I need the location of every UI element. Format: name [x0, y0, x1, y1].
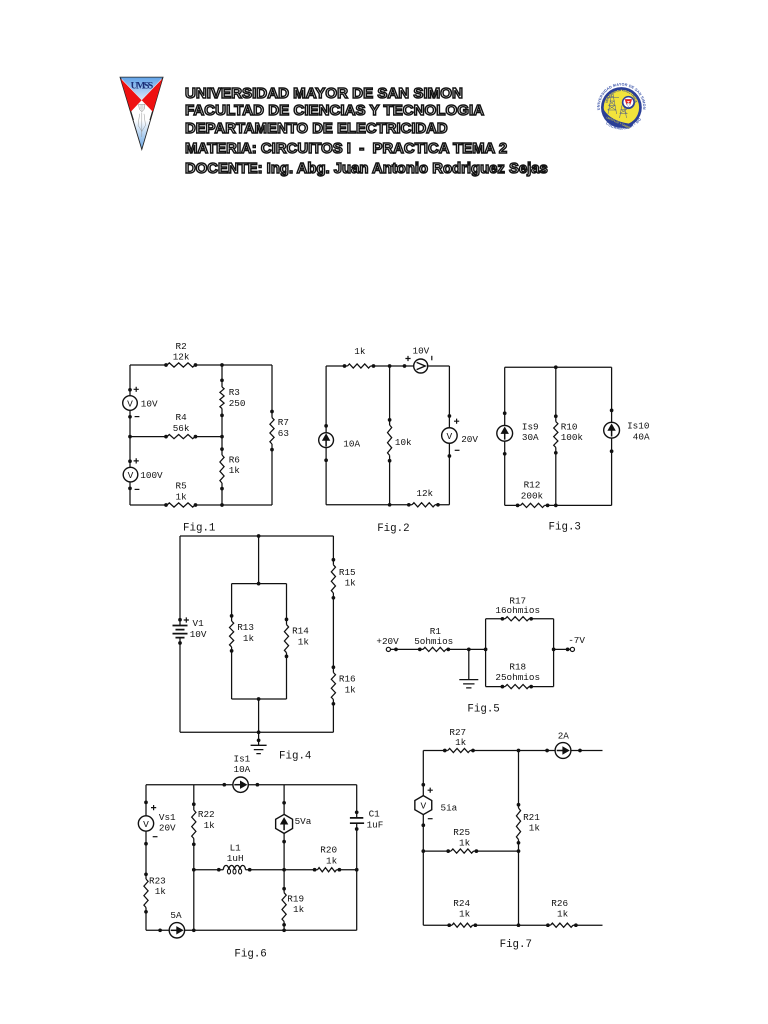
resistor R19 1k: [282, 887, 286, 927]
svg-text:Fig.1: Fig.1: [183, 523, 215, 535]
svg-text:Fig.4: Fig.4: [279, 751, 311, 763]
current source 10A: [319, 424, 334, 462]
terminal -7V: [570, 647, 574, 651]
wire Fig1 right: [271, 365, 273, 505]
ground Fig4: [251, 732, 267, 753]
wire Fig6 middle horizontal: [194, 869, 357, 871]
wire Fig7 left: [422, 751, 424, 926]
wire Fig7 middle vertical: [518, 751, 520, 926]
svg-text:R24: R24: [453, 898, 470, 909]
resistor 12k Fig2: [407, 503, 440, 507]
svg-text:1k: 1k: [345, 684, 357, 695]
wire Fig6 branch2 vertical: [193, 785, 195, 931]
svg-text:Is9: Is9: [522, 421, 539, 432]
svg-text:1k: 1k: [459, 909, 471, 920]
voltage source V 100V: [123, 459, 138, 490]
resistor R5 1k: [164, 503, 197, 507]
wire Fig4 left top lead: [179, 536, 181, 626]
svg-text:200k: 200k: [521, 491, 544, 502]
wire Fig2 top-left segment: [326, 365, 414, 367]
minus sign V10V: [135, 416, 140, 418]
wire Fig4 center stub top: [258, 536, 260, 584]
svg-text:10A: 10A: [343, 439, 360, 450]
junction dots Fig3: [554, 365, 558, 507]
Electrical engineering seal logo: [0, 0, 646, 131]
inner loop left wire: [231, 584, 233, 699]
wire Fig1 middle vertical: [221, 365, 223, 505]
resistor R13 1k: [229, 614, 233, 653]
current source Is10 40A: [604, 409, 620, 454]
Fig.4 circuit: [0, 0, 1, 1]
voltage source Vs1 20V: [138, 801, 153, 846]
junction dots Fig7: [421, 749, 520, 927]
junction dots Fig6: [192, 868, 359, 932]
junction dots Fig1: [128, 363, 224, 507]
resistor R12 200k: [516, 503, 550, 507]
svg-text:250: 250: [229, 398, 246, 409]
parallel box bottom branch: [486, 686, 554, 688]
svg-text:1k: 1k: [293, 904, 305, 915]
plus sign V100V: [134, 458, 139, 463]
svg-text:V: V: [420, 801, 426, 812]
svg-text:1uH: 1uH: [227, 853, 244, 864]
parallel box left bar: [485, 619, 487, 687]
svg-text:100k: 100k: [561, 432, 584, 443]
plus sign 20V: [454, 419, 459, 424]
svg-text:1k: 1k: [455, 737, 467, 748]
svg-text:R15: R15: [339, 567, 356, 578]
svg-text:1k: 1k: [298, 637, 310, 648]
voltage source 10V horizontal: [403, 359, 428, 373]
wire Fig6 left: [145, 785, 147, 931]
svg-text:63: 63: [278, 428, 289, 439]
Fig.6 circuit: [0, 0, 1, 1]
svg-text:R2: R2: [176, 341, 187, 352]
svg-text:5A: 5A: [170, 910, 182, 921]
dependent source 5Va: [276, 801, 293, 844]
resistor R24 1k: [447, 923, 477, 927]
resistor R14 1k: [284, 618, 288, 659]
svg-text:C1: C1: [369, 808, 381, 819]
wire Fig4 right: [332, 536, 334, 732]
svg-text:10k: 10k: [395, 437, 412, 448]
svg-text:12k: 12k: [173, 352, 190, 363]
svg-text:R26: R26: [551, 898, 568, 909]
svg-text:1k: 1k: [229, 465, 241, 476]
resistor R18 25ohmios: [501, 684, 534, 688]
wire Fig3 middle: [555, 367, 557, 505]
inner loop rectangle top: [232, 583, 287, 585]
svg-text:1uF: 1uF: [367, 819, 384, 830]
wire Fig3 top: [505, 366, 612, 368]
svg-text:1k: 1k: [176, 492, 188, 503]
UMSS pennant logo: [120, 78, 162, 149]
inner loop right wire: [286, 584, 288, 699]
terminal +20V: [386, 647, 390, 651]
svg-text:R6: R6: [229, 454, 240, 465]
resistor R6 1k: [220, 447, 224, 490]
svg-text:V: V: [128, 470, 134, 481]
resistor R16 1k: [331, 665, 335, 705]
svg-text:R23: R23: [149, 875, 166, 886]
plus sign V10V: [134, 387, 139, 392]
svg-text:V: V: [127, 398, 133, 409]
svg-text:1k: 1k: [459, 837, 471, 848]
svg-text:R16: R16: [339, 674, 356, 685]
ground stub Fig5: [459, 648, 478, 688]
wire Fig1 middle horizontal: [130, 436, 222, 438]
battery V1 10V: [173, 618, 188, 645]
parallel box top branch: [486, 618, 554, 620]
svg-text:R19: R19: [287, 893, 304, 904]
minus sign Vs1: [153, 836, 158, 838]
svg-text:1k: 1k: [529, 823, 541, 834]
wire Fig5 main left: [391, 648, 486, 652]
wire Fig7 middle horizontal: [423, 850, 518, 852]
wire Fig1 top: [130, 364, 272, 366]
svg-text:R18: R18: [509, 661, 526, 672]
wire Fig2 middle vertical: [389, 366, 391, 505]
svg-text:V: V: [143, 819, 149, 830]
svg-text:Fig.2: Fig.2: [377, 523, 409, 535]
svg-text:Vs1: Vs1: [159, 812, 176, 823]
voltage source V 20V: [442, 414, 458, 458]
svg-text:1k: 1k: [204, 820, 216, 831]
svg-text:1k: 1k: [354, 346, 366, 357]
svg-text:5Va: 5Va: [295, 816, 312, 827]
resistor R4 56k: [164, 434, 197, 438]
svg-text:12k: 12k: [416, 488, 433, 499]
wire Fig6 branch3 vertical: [283, 785, 285, 931]
resistor R3 250: [220, 378, 224, 417]
wire Fig2 right: [448, 366, 450, 505]
svg-text:1k: 1k: [243, 633, 255, 644]
svg-text:L1: L1: [230, 843, 242, 854]
svg-text:-7V: -7V: [568, 635, 585, 646]
svg-text:R25: R25: [453, 827, 470, 838]
resistor R21 1k: [516, 803, 520, 845]
svg-text:+20V: +20V: [376, 636, 399, 647]
current source 5A: [158, 923, 195, 938]
wire Fig1 left: [129, 365, 131, 505]
svg-text:10V: 10V: [190, 629, 207, 640]
svg-text:R5: R5: [176, 481, 187, 492]
current source Is9 30A: [497, 411, 513, 455]
svg-text:V1: V1: [193, 618, 205, 629]
svg-text:5ohmios: 5ohmios: [414, 636, 453, 647]
voltage source V 10V: [123, 388, 138, 419]
svg-text:5ia: 5ia: [441, 802, 458, 813]
resistor R27 1k: [443, 748, 475, 752]
svg-text:40A: 40A: [633, 432, 650, 443]
current source 2A: [545, 743, 582, 759]
junction dots Fig5 bars: [484, 648, 556, 652]
wire Fig3 right: [611, 367, 613, 505]
svg-text:R1: R1: [430, 626, 442, 637]
plus sign V1: [184, 617, 189, 622]
svg-text:R7: R7: [278, 417, 289, 428]
resistor 1k Fig2: [343, 364, 376, 368]
current source Is1 10A: [222, 777, 259, 792]
wire Fig6 bottom: [146, 929, 357, 931]
wire Fig2 left: [325, 366, 327, 505]
wire Fig3 left: [504, 367, 506, 505]
svg-text:1k: 1k: [557, 909, 569, 920]
svg-text:1k: 1k: [155, 886, 167, 897]
svg-text:R14: R14: [292, 626, 309, 637]
resistor R25 1k: [446, 849, 478, 853]
svg-text:2A: 2A: [558, 731, 570, 742]
svg-text:Is1: Is1: [234, 754, 251, 765]
wire Fig4 left bottom lead: [179, 638, 181, 733]
svg-text:Fig.5: Fig.5: [467, 704, 499, 716]
resistor 10k: [387, 418, 391, 463]
resistor R2 12k: [164, 363, 197, 367]
dependent source 5ia: [415, 783, 432, 827]
minus tick 10V Fig2: [431, 356, 433, 361]
minus sign 5ia: [428, 818, 433, 820]
svg-text:UMSS: UMSS: [131, 81, 154, 92]
junction dots Fig4: [257, 534, 261, 742]
svg-text:10V: 10V: [413, 346, 430, 357]
Fig.3 circuit: [0, 0, 1, 1]
inductor L1 1uH: [217, 865, 252, 874]
svg-text:1k: 1k: [345, 578, 357, 589]
svg-text:30A: 30A: [522, 432, 539, 443]
inner loop bottom wire: [232, 698, 287, 700]
svg-text:20V: 20V: [461, 434, 478, 445]
wire Fig6 right lower: [356, 823, 358, 930]
wire Fig5 main right: [554, 648, 571, 652]
resistor R7 63: [270, 410, 274, 452]
svg-text:R4: R4: [176, 412, 188, 423]
Fig.1 circuit: [0, 0, 1, 1]
svg-text:R12: R12: [524, 480, 541, 491]
svg-text:R21: R21: [523, 812, 540, 823]
svg-text:56k: 56k: [173, 423, 190, 434]
minus sign 20V: [455, 449, 460, 451]
wire Fig2 top-right segment: [428, 365, 450, 367]
svg-text:10V: 10V: [141, 398, 158, 409]
wire Fig6 top: [146, 784, 357, 786]
Fig.2 circuit: [0, 0, 1, 1]
svg-text:R10: R10: [561, 421, 578, 432]
wire Fig1 bottom: [130, 504, 272, 506]
Fig.5 circuit: [0, 0, 1, 1]
plus sign 5ia: [428, 788, 433, 793]
svg-text:R13: R13: [237, 622, 254, 633]
junction dots Fig2: [388, 364, 392, 507]
svg-text:16ohmios: 16ohmios: [495, 605, 540, 616]
Fig.7 circuit: [0, 0, 1, 1]
resistor R23 1k: [144, 872, 148, 913]
svg-text:1k: 1k: [326, 855, 338, 866]
wire Fig7 top: [423, 750, 602, 752]
svg-text:R20: R20: [320, 844, 337, 855]
wire Fig4 top: [180, 535, 333, 537]
parallel box right bar: [553, 619, 555, 687]
wire Fig7 bottom: [423, 924, 602, 926]
wire Fig4 center stub bottom: [258, 699, 260, 732]
wire Fig3 bottom: [505, 504, 612, 506]
minus sign V100V: [135, 488, 140, 490]
svg-text:R22: R22: [198, 809, 215, 820]
resistor R1 5ohmios: [418, 647, 450, 651]
resistor R10 100k: [554, 414, 558, 454]
svg-text:20V: 20V: [159, 823, 176, 834]
svg-text:10A: 10A: [234, 764, 251, 775]
plus sign 10V Fig2: [405, 356, 410, 361]
wire Fig6 right upper: [356, 785, 358, 818]
svg-text:100V: 100V: [140, 470, 163, 481]
resistor R22 1k: [192, 802, 196, 846]
svg-text:Fig.7: Fig.7: [500, 939, 532, 951]
svg-text:Is10: Is10: [627, 421, 649, 432]
wire Fig2 bottom: [326, 504, 449, 506]
wire Fig4 bottom: [180, 731, 333, 733]
svg-text:R3: R3: [229, 387, 240, 398]
svg-text:V: V: [447, 431, 453, 442]
resistor R26 1k: [546, 923, 578, 927]
svg-text:Fig.3: Fig.3: [549, 522, 581, 534]
svg-text:25ohmios: 25ohmios: [495, 672, 540, 683]
capacitor C1 1uF: [350, 810, 364, 830]
resistor R15 1k: [331, 558, 335, 600]
resistor R20 1k: [313, 868, 342, 872]
resistor R17 16ohmios: [501, 617, 534, 621]
svg-text:Fig.6: Fig.6: [234, 948, 266, 960]
plus sign Vs1: [151, 805, 156, 810]
